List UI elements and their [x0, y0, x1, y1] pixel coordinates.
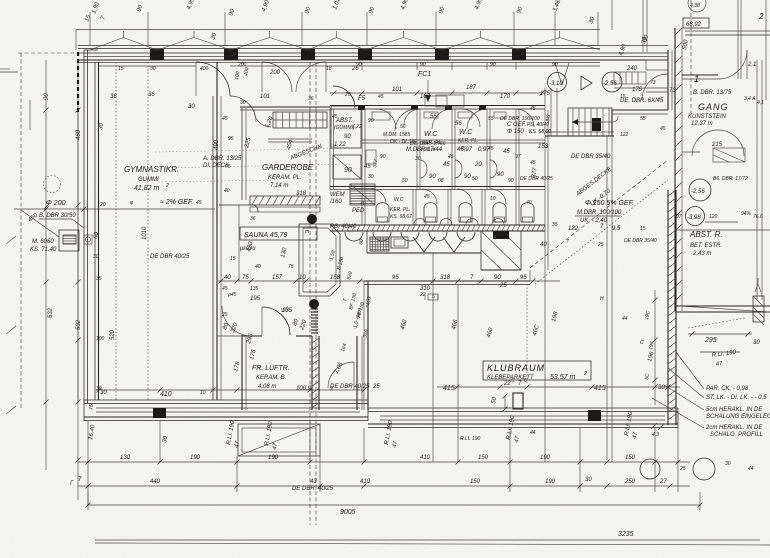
- svg-text:A. DBR. 13/25: A. DBR. 13/25: [202, 156, 242, 162]
- svg-text:B. DBR 30/50: B. DBR 30/50: [39, 213, 76, 219]
- svg-text:W.C: W.C: [424, 131, 438, 138]
- svg-text:KUNSTSTEIN: KUNSTSTEIN: [688, 114, 727, 120]
- svg-text:KER. PL.: KER. PL.: [458, 138, 479, 144]
- svg-text:73: 73: [650, 80, 656, 86]
- svg-text:m: m: [305, 229, 309, 235]
- svg-text:97: 97: [515, 154, 521, 160]
- svg-text:B6. DBR. 17/72: B6. DBR. 17/72: [713, 176, 748, 182]
- svg-text:400: 400: [200, 66, 209, 72]
- svg-text:9005: 9005: [340, 509, 356, 516]
- sanitary row1 partitions: [330, 88, 548, 270]
- svg-text:44: 44: [748, 466, 754, 472]
- room SAUNA boxed label: [219, 191, 317, 281]
- svg-text:27: 27: [659, 479, 667, 485]
- svg-text:Φ 150 5% GEF.: Φ 150 5% GEF.: [585, 200, 634, 207]
- ramp hatch below stair: [481, 231, 521, 270]
- svg-text:ρ45: ρ45: [227, 292, 237, 298]
- svg-text:36: 36: [250, 216, 256, 222]
- svg-text:4,08 m: 4,08 m: [258, 384, 276, 390]
- svg-text:7,14 m: 7,14 m: [270, 183, 288, 189]
- ladder stair element sanitary left: [350, 184, 375, 205]
- svg-text:25: 25: [344, 92, 351, 98]
- svg-text:40: 40: [360, 201, 366, 207]
- svg-text:190: 190: [545, 479, 556, 485]
- svg-text:43: 43: [310, 479, 317, 485]
- svg-text:30: 30: [96, 386, 102, 392]
- svg-text:30: 30: [150, 66, 156, 72]
- svg-text:40: 40: [255, 264, 261, 270]
- klubraum right inner dim chain: [653, 290, 658, 405]
- svg-text:FR. LUFTR.: FR. LUFTR.: [252, 365, 290, 372]
- room KLUBRAUM: [296, 270, 680, 412]
- svg-text:90: 90: [464, 174, 471, 180]
- svg-text:ABST.: ABST.: [335, 118, 353, 124]
- top exterior wall with truss bracing: [78, 12, 668, 63]
- svg-text:56: 56: [400, 124, 406, 130]
- right wall vertical pair: [675, 0, 766, 311]
- svg-text:1,22: 1,22: [334, 142, 346, 148]
- svg-text:25: 25: [597, 242, 604, 248]
- svg-text:30: 30: [240, 100, 246, 106]
- svg-text:90: 90: [356, 62, 362, 68]
- svg-text:45: 45: [503, 149, 510, 155]
- svg-text:90: 90: [429, 174, 436, 180]
- top-right corner wall structures: [600, 0, 676, 110]
- klubraum wall stub pier: [491, 393, 523, 412]
- svg-text:15: 15: [230, 256, 236, 262]
- svg-text:40: 40: [224, 275, 231, 281]
- svg-text:30: 30: [753, 340, 760, 346]
- svg-text:200: 200: [237, 62, 247, 68]
- svg-text:90: 90: [420, 62, 426, 68]
- svg-text:90: 90: [380, 154, 386, 160]
- svg-text:M.DBR 17/44: M.DBR 17/44: [406, 147, 443, 153]
- svg-text:4,1: 4,1: [757, 100, 764, 106]
- svg-text:30: 30: [368, 174, 374, 180]
- svg-text:M. 6060: M. 6060: [32, 239, 54, 245]
- pipe hatch below dot: [311, 309, 318, 333]
- svg-text:150: 150: [478, 455, 489, 461]
- svg-text:PS. 40/40: PS. 40/40: [527, 122, 549, 128]
- svg-text:215: 215: [711, 142, 723, 148]
- svg-text:410: 410: [160, 391, 172, 398]
- svg-text:30: 30: [188, 104, 195, 110]
- svg-text:2cm HERAKL. IN DE: 2cm HERAKL. IN DE: [705, 425, 763, 431]
- svg-text:170: 170: [500, 94, 511, 100]
- row1 door arcs and basins: [395, 109, 534, 178]
- svg-text:94%: 94%: [741, 211, 752, 217]
- svg-text:15: 15: [118, 66, 124, 72]
- svg-text:45: 45: [424, 194, 430, 200]
- outer frame corner top-left: [76, 30, 600, 404]
- svg-text:56: 56: [455, 121, 462, 127]
- misc annotations: [148, 91, 657, 492]
- svg-text:ABST. R.: ABST. R.: [689, 230, 723, 239]
- svg-text:135: 135: [282, 308, 293, 314]
- long extension lines: [88, 136, 678, 505]
- left exterior wall: [84, 50, 99, 403]
- svg-text:36: 36: [110, 94, 117, 100]
- svg-text:KER. PL.: KER. PL.: [390, 207, 411, 213]
- room FR.LUFTR: [233, 306, 312, 410]
- svg-text:55: 55: [488, 116, 494, 122]
- svg-text:KS. 71.40: KS. 71.40: [30, 247, 57, 253]
- black pipe dots: [307, 214, 317, 224]
- svg-text:4,38: 4,38: [690, 3, 700, 9]
- svg-text:410: 410: [360, 479, 371, 485]
- svg-text:-3,98: -3,98: [687, 215, 701, 221]
- svg-text:30: 30: [415, 156, 421, 162]
- svg-text:-3,10: -3,10: [549, 81, 563, 87]
- gym interior top line: [99, 65, 196, 67]
- svg-text:2: 2: [165, 183, 169, 189]
- svg-text:20: 20: [99, 202, 106, 208]
- klubraum right wall hatched: [668, 190, 676, 425]
- svg-text:532: 532: [76, 319, 82, 330]
- toilet fixtures: [376, 197, 534, 222]
- klubraum bottom exterior wall: [368, 408, 678, 438]
- svg-text:158: 158: [330, 275, 341, 281]
- svg-text:Φ 150: Φ 150: [507, 129, 524, 135]
- svg-text:45: 45: [222, 286, 228, 292]
- svg-text:44: 44: [530, 430, 536, 436]
- top-right landing steps: [614, 72, 668, 100]
- svg-text:36: 36: [148, 92, 155, 98]
- svg-text:5: 5: [511, 378, 514, 384]
- svg-text:M.DBR. 100/100: M.DBR. 100/100: [577, 210, 622, 216]
- svg-text:101: 101: [260, 94, 270, 100]
- svg-text:25: 25: [499, 283, 507, 289]
- svg-text:R.LI. 190: R.LI. 190: [460, 436, 481, 442]
- svg-text:150: 150: [625, 455, 636, 461]
- hatched wall right of FR.LUFTR: [312, 336, 319, 410]
- middle staircase block: [545, 63, 668, 160]
- left margin slashes: [6, 100, 30, 414]
- right hatched pier: [753, 278, 764, 325]
- svg-text:95: 95: [392, 275, 399, 281]
- svg-text:GARDEROBE: GARDEROBE: [262, 163, 314, 172]
- exterior terrace below: [238, 421, 320, 456]
- svg-text:1: 1: [694, 74, 700, 84]
- bottom dimension row 2: [70, 477, 690, 489]
- svg-text:175: 175: [540, 91, 551, 97]
- svg-text:30: 30: [725, 461, 731, 467]
- svg-text:318: 318: [440, 275, 451, 281]
- svg-text:30: 30: [93, 254, 99, 260]
- svg-text:ST. LK. - DI. LK. - - 0,5: ST. LK. - DI. LK. - - 0,5: [706, 395, 767, 401]
- svg-text:-2,56: -2,56: [603, 81, 617, 87]
- svg-text:4,3: 4,3: [652, 432, 659, 438]
- svg-text:36: 36: [308, 96, 314, 102]
- svg-text:44: 44: [622, 316, 628, 322]
- svg-text:DE DBR 40/25: DE DBR 40/25: [520, 176, 553, 182]
- svg-text:DE. DBR. 17/66: DE. DBR. 17/66: [410, 141, 446, 147]
- svg-text:KS. 68,67: KS. 68,67: [390, 214, 412, 220]
- svg-text:18: 18: [326, 66, 332, 72]
- rotated pipe texts right of duct: [342, 292, 373, 338]
- svg-text:35: 35: [552, 222, 558, 228]
- svg-text:W.C: W.C: [459, 129, 473, 136]
- gym interior dim row: [96, 388, 367, 393]
- svg-text:KERAM. PL.: KERAM. PL.: [268, 175, 302, 181]
- svg-text:50: 50: [402, 178, 408, 184]
- svg-text:190: 190: [190, 455, 201, 461]
- svg-text:5cm HERAKL. IN DE: 5cm HERAKL. IN DE: [706, 407, 763, 413]
- overhang dashed and dims right: [688, 318, 760, 368]
- svg-text:/160: /160: [329, 199, 342, 205]
- small room right: [328, 336, 362, 410]
- svg-text:75: 75: [242, 275, 249, 281]
- svg-text:B. DBR. 13/75: B. DBR. 13/75: [693, 90, 732, 96]
- bottom total 9005: [86, 492, 703, 516]
- svg-text:130: 130: [120, 455, 131, 461]
- left scan edge mark: [0, 71, 18, 73]
- svg-text:55: 55: [430, 114, 437, 120]
- bottom exterior wall left section: [84, 390, 368, 421]
- svg-text:90: 90: [494, 275, 501, 281]
- svg-text:10: 10: [490, 196, 496, 202]
- ceiling diagonal annotations: [330, 160, 668, 390]
- svg-text:90: 90: [368, 118, 374, 124]
- svg-text:12,37 m: 12,37 m: [691, 121, 713, 127]
- svg-text:SCHALUNG EINGELEG: SCHALUNG EINGELEG: [706, 414, 770, 420]
- dash-dot section reference lines left: [18, 53, 77, 410]
- svg-text:FC1: FC1: [418, 71, 431, 78]
- svg-text:187: 187: [466, 85, 477, 91]
- svg-text:240: 240: [626, 66, 638, 72]
- svg-text:7: 7: [566, 239, 569, 245]
- extra scattered numbers: [96, 62, 754, 472]
- svg-text:75: 75: [225, 164, 231, 170]
- left dimension chain: [44, 60, 83, 500]
- svg-text:250: 250: [624, 479, 636, 485]
- room GANG: [682, 31, 770, 162]
- svg-text:122: 122: [620, 132, 629, 138]
- svg-text:GYMNASTIKR.: GYMNASTIKR.: [124, 165, 179, 174]
- svg-text:25: 25: [679, 466, 686, 472]
- svg-text:10: 10: [200, 390, 206, 396]
- svg-text:2,43 m: 2,43 m: [692, 251, 711, 257]
- WC room labels row1: [366, 112, 551, 180]
- svg-text:40: 40: [526, 200, 532, 206]
- svg-text:415: 415: [594, 385, 606, 392]
- svg-text:90: 90: [497, 172, 504, 178]
- svg-text:295: 295: [704, 337, 717, 344]
- svg-text:30: 30: [585, 477, 592, 483]
- staircase upper: [240, 107, 330, 142]
- svg-text:SAUNA 45,79: SAUNA 45,79: [244, 232, 287, 239]
- svg-text:GANG: GANG: [698, 102, 729, 112]
- bottom total 3235: [95, 531, 770, 545]
- svg-text:45: 45: [460, 146, 466, 152]
- svg-text:9,5: 9,5: [612, 226, 621, 232]
- svg-text:1010: 1010: [142, 226, 148, 240]
- svg-text:76,6: 76,6: [753, 214, 763, 220]
- svg-text:45: 45: [488, 146, 494, 152]
- svg-text:KERAM. B.: KERAM. B.: [256, 375, 286, 381]
- svg-text:3,4 A: 3,4 A: [744, 96, 756, 102]
- duct shaft right of sauna: [299, 224, 357, 296]
- svg-text:08: 08: [438, 178, 444, 184]
- top dimension numbers: [84, 0, 650, 57]
- lower fixtures room: [358, 231, 481, 253]
- svg-text:97: 97: [676, 214, 682, 220]
- passage above FR.LUFTR: [217, 292, 309, 336]
- svg-text:440: 440: [150, 479, 161, 485]
- svg-text:150: 150: [470, 479, 481, 485]
- arc into gang top right: [642, 74, 668, 100]
- bottom dimension row 1: [78, 455, 690, 465]
- double door arcs top corridor: [234, 62, 359, 92]
- svg-text:25: 25: [372, 384, 380, 390]
- svg-text:7,22: 7,22: [352, 124, 362, 130]
- svg-text:3235: 3235: [618, 531, 634, 538]
- svg-text:15: 15: [640, 226, 646, 232]
- svg-text:DE DBR 40/25: DE DBR 40/25: [330, 384, 370, 390]
- svg-text:BET. ESTR.: BET. ESTR.: [690, 243, 722, 249]
- svg-text:90: 90: [552, 62, 558, 68]
- svg-text:45: 45: [530, 106, 536, 112]
- boxed level 68.92: [683, 0, 764, 106]
- svg-text:532: 532: [48, 307, 54, 318]
- svg-text:90: 90: [44, 93, 50, 100]
- svg-text:≈ 2% GEF.: ≈ 2% GEF.: [160, 199, 193, 206]
- svg-text:2: 2: [583, 371, 587, 377]
- svg-text:45: 45: [443, 162, 450, 168]
- svg-text:PED: PED: [352, 208, 365, 214]
- svg-text:520: 520: [110, 329, 116, 340]
- svg-text:190: 190: [540, 455, 551, 461]
- notes right bottom: [652, 352, 770, 438]
- room GARDEROBE: [230, 96, 324, 212]
- washbasins row below band: [345, 219, 504, 242]
- dashed riser lines: [309, 62, 311, 525]
- svg-text:95: 95: [228, 136, 234, 142]
- svg-text:5: 5: [432, 294, 435, 300]
- svg-text:DE DBR. 40/25: DE DBR. 40/25: [292, 486, 334, 492]
- svg-text:90: 90: [344, 167, 352, 174]
- svg-text:100: 100: [96, 336, 105, 342]
- svg-text:2: 2: [758, 12, 764, 21]
- svg-text:35: 35: [96, 276, 102, 282]
- svg-text:55: 55: [640, 116, 646, 122]
- svg-text:101: 101: [392, 87, 402, 93]
- left wall drain fixture: [14, 176, 215, 261]
- svg-text:20: 20: [474, 162, 482, 168]
- svg-text:-2,56: -2,56: [691, 189, 705, 195]
- svg-text:WEM: WEM: [330, 192, 345, 198]
- svg-text:41,82 m: 41,82 m: [134, 185, 159, 192]
- sanitary block corridor and top wall: [330, 62, 545, 129]
- dash-dot section line: [690, 0, 692, 115]
- svg-text:122: 122: [568, 226, 579, 232]
- svg-text:153: 153: [538, 144, 549, 150]
- svg-text:40: 40: [224, 188, 230, 194]
- two circles bottom right: [640, 459, 660, 479]
- svg-text:75: 75: [288, 264, 294, 270]
- svg-text:H: H: [600, 296, 604, 302]
- svg-text:410: 410: [420, 455, 431, 461]
- svg-text:25: 25: [221, 312, 228, 318]
- svg-text:30: 30: [658, 385, 665, 391]
- svg-text:45: 45: [530, 160, 536, 166]
- svg-text:50: 50: [472, 176, 478, 182]
- svg-text:F5: F5: [358, 96, 366, 102]
- svg-text:15: 15: [620, 94, 626, 100]
- svg-text:SCHALG. PROFILL: SCHALG. PROFILL: [710, 432, 763, 438]
- svg-text:45: 45: [196, 200, 202, 206]
- svg-text:DE DBR 35/40: DE DBR 35/40: [571, 154, 611, 160]
- svg-text:C: C: [640, 340, 644, 346]
- svg-text:W.C: W.C: [394, 197, 404, 203]
- svg-text:Φ 200: Φ 200: [46, 200, 66, 207]
- room ABST top small: [331, 86, 361, 148]
- svg-text:DE DBR 40/25: DE DBR 40/25: [150, 254, 190, 260]
- svg-text:68,92: 68,92: [686, 22, 702, 28]
- washbasin wall hatched band: [330, 225, 545, 231]
- svg-text:90: 90: [490, 62, 496, 68]
- svg-text:190: 190: [268, 455, 279, 461]
- room between gang and abstr: [676, 176, 763, 226]
- svg-text:45: 45: [448, 154, 454, 160]
- door arc gym to garderobe: [196, 62, 230, 96]
- svg-text:95: 95: [520, 275, 527, 281]
- level circles mid: [548, 72, 623, 92]
- svg-text:195: 195: [250, 296, 261, 302]
- svg-text:135: 135: [250, 286, 259, 292]
- svg-text:M.DM. 1585: M.DM. 1585: [383, 132, 410, 138]
- svg-text:Γ: Γ: [70, 481, 74, 487]
- svg-text:DE DBR. 100/100: DE DBR. 100/100: [500, 116, 540, 122]
- svg-text:167: 167: [420, 94, 431, 100]
- svg-text:C GEF.: C GEF.: [507, 122, 526, 128]
- svg-text:PAR. CK. - 0,98: PAR. CK. - 0,98: [706, 386, 749, 392]
- svg-text:90: 90: [508, 178, 514, 184]
- svg-text:45: 45: [332, 114, 338, 120]
- svg-text:45: 45: [660, 126, 666, 132]
- shaft below abst: [333, 155, 371, 179]
- svg-text:6: 6: [524, 378, 527, 384]
- svg-text:2,1: 2,1: [747, 62, 756, 68]
- sanitary mid walls: [362, 96, 545, 143]
- rotated dims above bottom rows: [88, 411, 639, 449]
- svg-text:10: 10: [299, 275, 306, 281]
- wall gym right: [213, 62, 221, 400]
- svg-text:415: 415: [443, 385, 455, 392]
- svg-text:KLUBRAUM: KLUBRAUM: [487, 363, 545, 373]
- svg-text:GUMMI: GUMMI: [138, 177, 159, 183]
- svg-text:100,9: 100,9: [296, 386, 312, 392]
- svg-text:DE DBR 35/40: DE DBR 35/40: [624, 238, 657, 244]
- svg-text:UK. - 2,40: UK. - 2,40: [580, 218, 608, 224]
- svg-text:40: 40: [540, 242, 547, 248]
- svg-text:45: 45: [222, 116, 228, 122]
- room ABST.R: [675, 230, 770, 312]
- svg-text:157: 157: [272, 275, 283, 281]
- svg-text:120: 120: [709, 214, 718, 220]
- mid dim line row y281: [218, 275, 560, 284]
- stair left of block: [545, 88, 557, 136]
- svg-text:468: 468: [76, 129, 82, 140]
- room GYMNASTIKR label: [98, 62, 360, 400]
- svg-text:200: 200: [269, 70, 281, 76]
- toilet stalls row2: [362, 189, 519, 225]
- svg-text:90: 90: [344, 134, 351, 140]
- svg-text:45: 45: [378, 94, 384, 100]
